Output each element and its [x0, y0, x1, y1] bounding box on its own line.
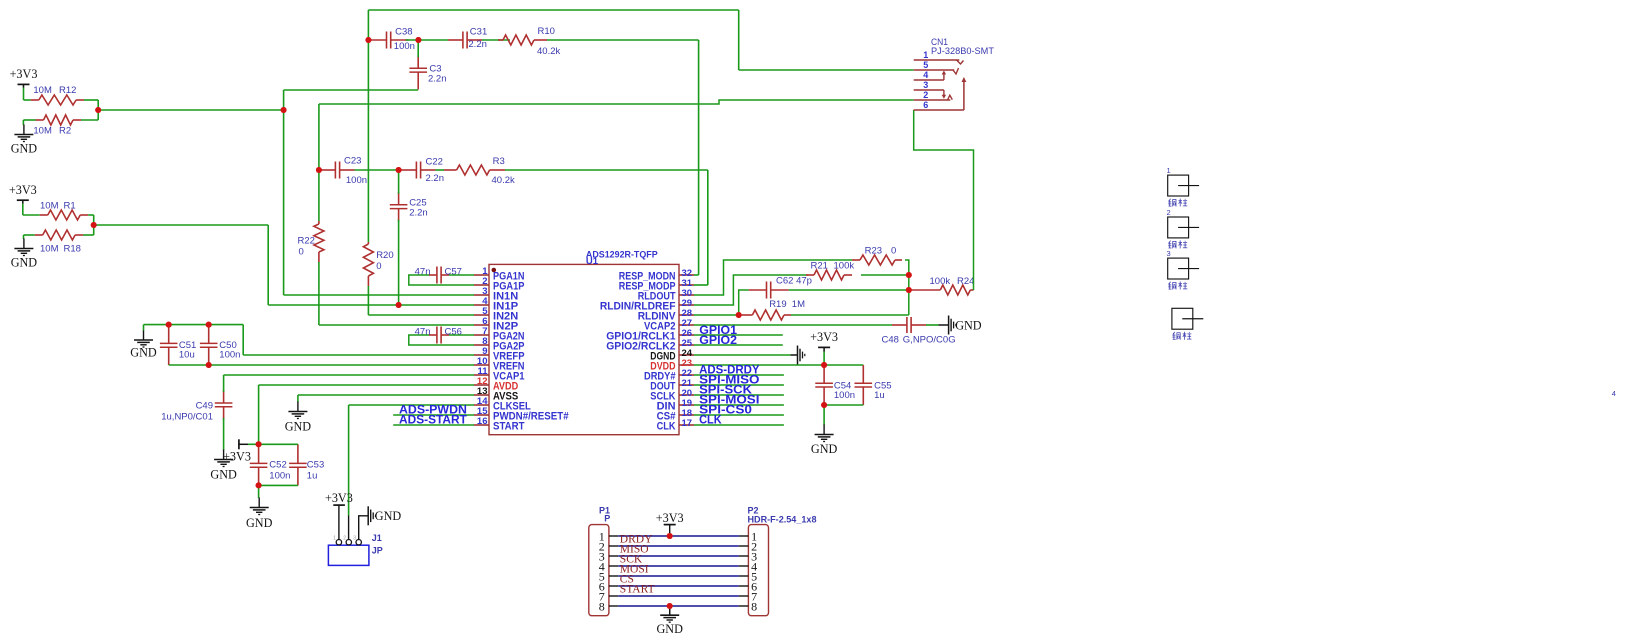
wire pin30 to R23 [694, 260, 852, 295]
capacitor C55 [862, 365, 864, 383]
wire [22, 204, 24, 216]
connector P1 header [589, 525, 609, 616]
wire AVDD [248, 443, 259, 445]
svg-text:1: 1 [1167, 166, 1171, 175]
node junction RLDINV [736, 312, 742, 318]
wire P1-5 to P2-5 [618, 575, 739, 577]
svg-text:3: 3 [1167, 249, 1171, 258]
U1 pin 4 IN1P [474, 304, 489, 306]
svg-text:GPIO2: GPIO2 [699, 335, 737, 347]
node junction IN1N [281, 107, 287, 113]
wire C25 to IN1P [398, 170, 400, 194]
node junction C50 top [206, 322, 212, 328]
junction dots overlay [91, 37, 912, 609]
wire IN1N to pin3 [284, 294, 474, 296]
svg-text:40.2k: 40.2k [492, 175, 515, 186]
power +3V3 flag (AVDD) [238, 439, 240, 449]
U1 pin 16 START [474, 424, 489, 426]
U1 pin 8 PGA2P [474, 344, 489, 346]
resistor R22 [318, 221, 320, 224]
wire P1-1 to P2-1 [618, 535, 739, 537]
wire [823, 405, 825, 425]
svg-text:U1: U1 [586, 256, 599, 267]
U1 pin 17 CLK [679, 424, 694, 426]
wire pin28 / RLDINV [694, 314, 739, 316]
node junction R1/R18 [91, 222, 97, 228]
svg-text:HDR-F-2.54_1x8: HDR-F-2.54_1x8 [748, 515, 817, 525]
wire [23, 119, 35, 121]
copper pillar 2 label [1169, 241, 1171, 243]
connector J1 JP [328, 545, 369, 565]
J1 pin lead middle [348, 516, 350, 540]
CN1 pin 6 with sleeve arm [914, 109, 964, 111]
U1 pin 22 DRDY# [679, 374, 694, 376]
node junction P pin8 [667, 603, 673, 609]
node junction P pin1 [667, 533, 673, 539]
wire C3 bottom [417, 40, 419, 57]
wire [84, 99, 98, 101]
svg-text:2.2n: 2.2n [409, 208, 428, 219]
wire GPIO1 [694, 334, 783, 336]
wire ADS-DRDY [694, 374, 784, 376]
svg-text:R3: R3 [493, 156, 505, 167]
svg-text:R12: R12 [59, 85, 76, 96]
wire to IN1P net [94, 224, 269, 226]
node junction C54 bottom [821, 402, 827, 408]
U1 pin 15 PWDN#/RESET# [474, 414, 489, 416]
resistor R12 [31, 99, 39, 101]
svg-text:+3V3: +3V3 [223, 450, 251, 464]
U1 pin 20 SCLK [679, 394, 694, 396]
U1 pin 19 DIN [679, 404, 694, 406]
wire CLKSEL [349, 404, 474, 406]
U1 pin 5 IN2N [474, 314, 489, 316]
P2 pin 6 stub [739, 585, 749, 587]
wire [88, 214, 94, 216]
capacitor C53 [297, 444, 299, 463]
U1 pin 26 GPIO1/RCLK1 [679, 334, 694, 336]
resistor R19 [739, 314, 753, 316]
copper pillar 4 [1172, 308, 1193, 329]
svg-text:4: 4 [1612, 389, 1616, 398]
wire C53 branch [259, 443, 298, 445]
node junction C23 left [316, 167, 322, 173]
svg-text:C49: C49 [196, 401, 213, 412]
svg-text:R22: R22 [298, 236, 315, 247]
wire IN1P to pin4 [268, 304, 474, 306]
ground GND (J1, rotated) [367, 506, 369, 525]
wire C55 branch [824, 404, 863, 406]
node junction AVDD top [256, 441, 262, 447]
U1 pin 2 PGA1P [474, 284, 489, 286]
svg-text:10M: 10M [40, 244, 59, 255]
ground GND (left, second) [23, 239, 25, 249]
copper pillar 3 [1168, 258, 1189, 279]
wire VCAP2 [694, 324, 892, 326]
wire RESP_MODN top route [368, 9, 738, 11]
svg-text:10u: 10u [179, 350, 195, 361]
wire C57 loop to pins 1/2 [449, 274, 474, 276]
wire C56 loop to pins 7/8 [449, 334, 474, 336]
copper pillar 4 label [1173, 332, 1175, 334]
svg-text:40.2k: 40.2k [537, 46, 560, 57]
svg-text:GND: GND [246, 516, 273, 530]
U1 pin 18 CS# [679, 414, 694, 416]
svg-text:+3V3: +3V3 [9, 183, 37, 197]
wire SPI-SCK [694, 394, 784, 396]
U1 pin 21 DOUT [679, 384, 694, 386]
svg-text:R24: R24 [957, 276, 974, 287]
U1 orientation dot [492, 268, 497, 273]
svg-text:GND: GND [955, 318, 982, 332]
svg-text:R18: R18 [64, 244, 81, 255]
wire SPI-MISO [694, 384, 784, 386]
wire P1-6 to P2-6 [618, 585, 739, 587]
wire pin29 to R21 [694, 275, 807, 305]
svg-text:8: 8 [751, 600, 757, 614]
svg-text:C57: C57 [445, 267, 462, 278]
capacitor C51 [168, 325, 170, 344]
ground GND (AVSS) [297, 402, 299, 412]
wire ADS-START [393, 424, 474, 426]
U1 pin 31 RESP_MODP [679, 284, 694, 286]
svg-text:2: 2 [1167, 208, 1171, 217]
wire CLK [694, 424, 784, 426]
resistor R24 [909, 289, 941, 291]
capacitor C62 [749, 289, 767, 291]
wire C62 branch [739, 290, 749, 315]
capacitor C25 [398, 192, 400, 205]
svg-text:GND: GND [285, 420, 312, 434]
svg-text:GND: GND [811, 442, 838, 456]
svg-text:10M: 10M [33, 85, 52, 96]
resistor R23 [852, 259, 860, 261]
wire SPI-MOSI [694, 404, 784, 406]
U1 pin 11 VCAP1 [474, 374, 489, 376]
svg-text:2: 2 [923, 90, 928, 100]
U1 pin 29 RLDIN/RLDREF [679, 304, 694, 306]
CN1 pin 1 [914, 59, 960, 61]
svg-text:C48: C48 [882, 335, 899, 346]
svg-text:1u,NP0/C01: 1u,NP0/C01 [161, 412, 213, 423]
svg-text:1: 1 [333, 536, 336, 542]
wire [367, 40, 369, 242]
svg-text:C62 47p: C62 47p [776, 275, 812, 286]
P2 pin 3 stub [739, 555, 749, 557]
capacitor C57 [429, 274, 437, 276]
ground GND (DVDD) [823, 425, 825, 435]
node junction C51 top [166, 322, 172, 328]
U1 pin 3 IN1N [474, 294, 489, 296]
wire GPIO2 [694, 344, 783, 346]
wire [223, 418, 225, 450]
svg-text:R1: R1 [64, 201, 76, 212]
copper pillar 3 label [1169, 282, 1171, 284]
svg-text:C22: C22 [426, 157, 443, 168]
U1 pin 9 VREFP [474, 354, 489, 356]
svg-text:R20: R20 [376, 250, 393, 261]
svg-text:10M: 10M [33, 126, 52, 137]
wire [926, 324, 939, 326]
svg-text:47n: 47n [415, 267, 431, 278]
resistor R3 [444, 169, 457, 171]
svg-text:R21: R21 [811, 261, 828, 272]
copper pillar 1 label [1169, 199, 1171, 201]
svg-text:10M: 10M [40, 201, 59, 212]
U1 pin 24 DGND [679, 354, 694, 356]
svg-text:6: 6 [923, 100, 928, 110]
svg-text:8: 8 [599, 600, 605, 614]
svg-text:100n: 100n [219, 350, 240, 361]
ground GND (C52/C53) [258, 498, 260, 508]
ground GND (C48, rotated) [948, 316, 950, 335]
U1 pin 25 GPIO2/RCLK2 [679, 344, 694, 346]
capacitor C3 [417, 55, 419, 68]
P1 pin 6 stub [609, 585, 618, 587]
capacitor C48 [892, 324, 907, 326]
wire [318, 170, 320, 221]
svg-text:P: P [604, 514, 610, 524]
svg-text:1u: 1u [307, 471, 318, 482]
wire P1-7 to P2-7 [618, 595, 739, 597]
svg-text:+3V3: +3V3 [10, 67, 38, 81]
wire [406, 39, 448, 41]
svg-text:GND: GND [11, 142, 38, 156]
svg-text:2.2n: 2.2n [428, 74, 447, 85]
svg-text:5: 5 [923, 60, 928, 70]
capacitor C56 [429, 334, 437, 336]
wire [905, 260, 909, 315]
svg-text:+3V3: +3V3 [810, 330, 838, 344]
node junction C38 right / C3 [415, 37, 421, 43]
wire P1-3 to P2-3 [618, 555, 739, 557]
CN1 pin 3 with switch arrow [914, 89, 944, 91]
svg-text:100n: 100n [346, 175, 367, 186]
ground GND (P header) [669, 606, 671, 615]
svg-text:100n: 100n [394, 41, 415, 52]
connector P2 HDR-F-2.54_1x8 [748, 525, 768, 616]
svg-text:+3V3: +3V3 [325, 491, 353, 505]
wire AVSS [298, 394, 474, 396]
capacitor C52 [258, 444, 260, 463]
wire [482, 39, 510, 41]
capacitor C31 [448, 39, 463, 41]
capacitor C22 [402, 169, 417, 171]
svg-text:J1: J1 [372, 533, 382, 543]
CN1 pin 4 with switch arrow [914, 79, 944, 81]
resistor R20 [367, 242, 369, 244]
resistor R2 [36, 119, 44, 121]
wire VCAP1 [223, 375, 225, 392]
svg-text:1: 1 [923, 50, 928, 60]
P1 pin 3 stub [609, 555, 618, 557]
svg-text:2: 2 [343, 536, 346, 542]
wire P1-4 to P2-4 [618, 565, 739, 567]
svg-text:C53: C53 [307, 460, 324, 471]
svg-text:2.2n: 2.2n [426, 173, 445, 184]
wire ADS-PWDN [393, 414, 474, 416]
U1 pin 13 AVSS [474, 394, 489, 396]
ground GND (C49) [223, 450, 225, 460]
wire [861, 274, 909, 276]
capacitor C50 [208, 325, 210, 344]
wire [436, 169, 445, 171]
wire C51/C50 bottoms to VREFN [169, 364, 474, 366]
wire P1-8 to P2-8 [618, 605, 739, 607]
svg-text:0: 0 [891, 246, 896, 257]
svg-text:G,NPO/C0G: G,NPO/C0G [903, 335, 956, 346]
P2 pin 2 stub [739, 545, 749, 547]
wire DGND [694, 354, 790, 356]
U1 pin 23 DVDD [679, 364, 694, 366]
svg-text:C31: C31 [470, 27, 487, 38]
svg-text:R10: R10 [538, 26, 555, 37]
wire R24 to CN1 sleeve [914, 110, 974, 290]
ground GND (VREF) [143, 330, 145, 340]
svg-text:START: START [620, 584, 655, 596]
svg-text:1u: 1u [874, 390, 885, 401]
svg-text:GND: GND [210, 468, 237, 482]
wire VREFP rail [143, 325, 145, 331]
svg-text:GND: GND [11, 256, 38, 270]
P2 pin 8 stub [739, 605, 749, 607]
wire [24, 234, 35, 236]
node junction C52 bottom [256, 482, 262, 488]
P1 pin 8 stub [609, 605, 618, 607]
wire [355, 169, 402, 171]
node junction C50 bottom [206, 362, 212, 368]
svg-text:100k: 100k [930, 276, 951, 287]
P1 pin 1 stub [609, 535, 618, 537]
svg-text:C23: C23 [344, 156, 361, 167]
U1 pin 12 AVDD [474, 384, 489, 386]
resistor R18 [35, 234, 43, 236]
svg-text:C38: C38 [395, 27, 412, 38]
wire [791, 314, 909, 316]
svg-text:R2: R2 [59, 126, 71, 137]
svg-text:C56: C56 [445, 327, 462, 338]
svg-text:3: 3 [353, 536, 356, 542]
svg-text:100n: 100n [834, 390, 855, 401]
node junction R12/R2 [95, 107, 101, 113]
svg-text:R23: R23 [865, 246, 882, 257]
svg-text:17: 17 [682, 418, 693, 429]
wire [318, 104, 320, 170]
U1 pin 27 VCAP2 [679, 324, 694, 326]
capacitor C49 [223, 390, 225, 403]
wire [23, 88, 25, 101]
svg-text:START: START [493, 421, 525, 433]
node junction R21 right [906, 272, 912, 278]
svg-text:4: 4 [923, 70, 928, 80]
svg-text:JP: JP [372, 546, 383, 556]
P1 pin 2 stub [609, 545, 618, 547]
wire R22 to pin6 [318, 262, 320, 325]
wire DVDD [694, 364, 863, 366]
U1 pin 10 VREFN [474, 364, 489, 366]
resistor R1 [40, 214, 48, 216]
wire [258, 485, 260, 498]
node junction C62 right [906, 287, 912, 293]
node junction C23/C22/C25 [396, 167, 402, 173]
svg-text:R19: R19 [769, 299, 786, 310]
P1 pin 4 stub [609, 565, 618, 567]
P2 pin 1 stub [739, 535, 749, 537]
node junction C38 left [365, 37, 371, 43]
wire to pin31 [505, 169, 708, 171]
svg-text:+3V3: +3V3 [656, 511, 684, 525]
wire P1-2 to P2-2 [618, 545, 739, 547]
CN1 pin 2 [914, 99, 951, 101]
J1 pin lead right / ground flag [359, 516, 369, 540]
U1 pin 7 PGA2N [474, 334, 489, 336]
ground (DGND, rotated) [797, 346, 799, 365]
svg-text:100k: 100k [834, 261, 855, 272]
P2 pin 7 stub [739, 595, 749, 597]
svg-text:47n: 47n [415, 327, 431, 338]
ground GND (top-left) [23, 125, 25, 135]
P2 pin 5 stub [739, 575, 749, 577]
capacitor C54 [823, 365, 825, 383]
node junction IN1P [396, 302, 402, 308]
svg-text:0: 0 [376, 261, 381, 272]
wire to IN1N net [98, 109, 283, 111]
svg-text:PJ-328B0-SMT: PJ-328B0-SMT [931, 46, 995, 56]
P2 pin 4 stub [739, 565, 749, 567]
svg-text:100n: 100n [269, 471, 290, 482]
P1 pin 5 stub [609, 575, 618, 577]
wire SPI-CS0 [694, 414, 784, 416]
U1 pin 28 RLDINV [679, 314, 694, 316]
wire from CN1 pin2 [319, 100, 914, 104]
U1 pin 1 PGA1N [474, 274, 489, 276]
svg-text:C52: C52 [269, 460, 286, 471]
svg-text:1M: 1M [792, 299, 805, 310]
wire [738, 10, 740, 70]
svg-text:0: 0 [299, 247, 304, 258]
svg-text:16: 16 [477, 416, 488, 427]
U1 pin 6 IN2P [474, 324, 489, 326]
resistor R21 [806, 274, 814, 276]
svg-text:ADS-START: ADS-START [399, 415, 467, 427]
U1 pin 30 RLDOUT [679, 294, 694, 296]
op-amp U1 ADS1292R-TQFP body [489, 264, 679, 434]
node junction DVDD [821, 362, 827, 368]
svg-text:3: 3 [923, 80, 928, 90]
svg-text:GND: GND [375, 509, 402, 523]
CN1 pin 5 [914, 69, 955, 71]
svg-text:GND: GND [130, 346, 157, 360]
resistor R10 [498, 39, 503, 41]
svg-text:CLK: CLK [699, 415, 722, 427]
U1 pin 14 CLKSEL [474, 404, 489, 406]
capacitor C38 [369, 39, 387, 41]
P1 pin 7 stub [609, 595, 618, 597]
copper pillar 1 [1168, 175, 1189, 196]
svg-text:GND: GND [656, 622, 683, 636]
wire R20 to pin5 [367, 286, 369, 315]
capacitor C23 [321, 169, 336, 171]
U1 pin 32 RESP_MODN [679, 274, 694, 276]
svg-text:CLK: CLK [657, 421, 676, 433]
copper pillar 2 [1168, 217, 1189, 238]
wire to pin32 [547, 39, 699, 41]
